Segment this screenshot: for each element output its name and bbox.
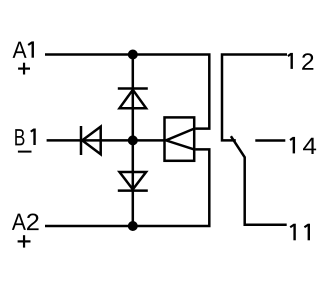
diode V3 cathode bar xyxy=(80,126,83,155)
node junction dot A2 xyxy=(128,221,138,231)
diode V2 cathode bar xyxy=(118,189,148,192)
polarity plus under A2 xyxy=(18,235,31,247)
polarity minus under B1 xyxy=(18,151,32,153)
label A2 xyxy=(12,214,39,231)
wire B1 line xyxy=(47,139,165,142)
wire terminal 14 fixed contact xyxy=(255,139,285,142)
label 14 xyxy=(290,137,316,154)
diode V2 triangle xyxy=(120,172,147,189)
label A1 xyxy=(13,41,33,58)
polarity plus under A1 xyxy=(18,63,30,75)
label B1 xyxy=(15,129,34,146)
diode V1 triangle xyxy=(120,90,147,108)
relay coil K1 box xyxy=(165,117,195,160)
label 12 xyxy=(288,53,313,70)
wire terminal 12 branch with NC fixed contact xyxy=(222,55,287,141)
relay coil K1 polarized triangle xyxy=(166,129,194,150)
diode V1 cathode bar xyxy=(118,87,148,90)
diode V3 triangle xyxy=(82,127,101,155)
label 11 xyxy=(290,224,309,241)
node junction dot A1 xyxy=(128,50,138,60)
wire A1 line to right vertical into coil box top xyxy=(45,55,209,129)
contact arm to terminal 11 xyxy=(231,136,287,225)
node junction dot B1 xyxy=(128,135,138,145)
wire main vertical bus xyxy=(132,55,135,227)
wire coil box bottom to right vertical to A2 line xyxy=(45,149,209,226)
